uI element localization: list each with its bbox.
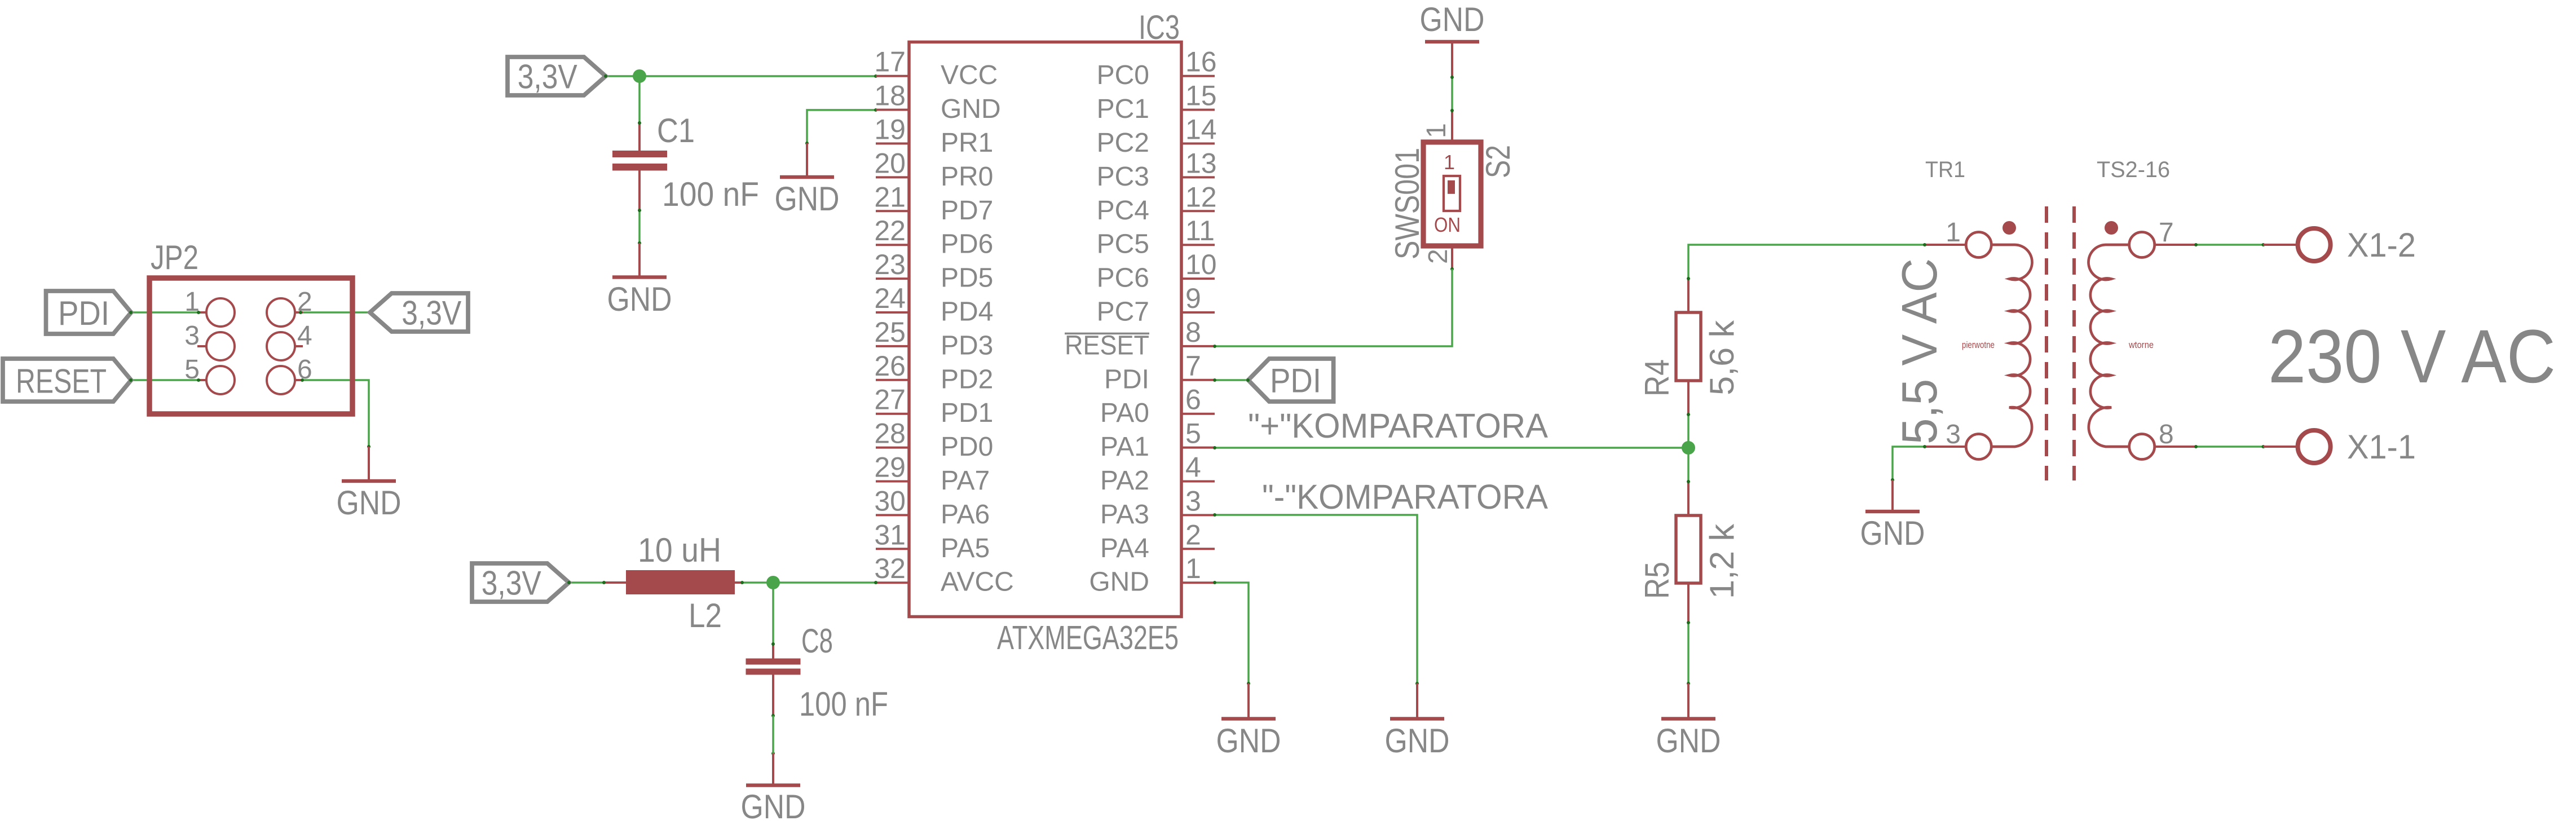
net flag PDI (IC3): [1249, 359, 1334, 402]
svg-text:PDI: PDI: [1270, 362, 1321, 400]
S2 slider: [1444, 176, 1460, 211]
wire IC pin 7 to PDI flag: [1215, 379, 1248, 381]
svg-text:22: 22: [874, 215, 906, 246]
svg-text:100 nF: 100 nF: [799, 685, 888, 723]
IC3 pin 30 (PA6) stub: [876, 514, 909, 516]
ground GND (C1): [638, 243, 641, 277]
IC3 pin 2 (PA4) stub: [1181, 548, 1215, 550]
svg-text:GND: GND: [1089, 567, 1149, 597]
wire junction down to C8: [772, 583, 774, 644]
svg-text:12: 12: [1185, 181, 1217, 213]
svg-text:pierwotne: pierwotne: [1962, 339, 1995, 350]
IC3 pin 17 (VCC) stub: [876, 75, 909, 77]
IC3 pin 4 (PA2) stub: [1181, 480, 1215, 483]
JP2 pin 2: [295, 311, 303, 314]
junction node divider midpoint PA1: [1682, 441, 1695, 455]
wire junction to R5 top: [1687, 448, 1690, 482]
svg-text:10: 10: [1185, 249, 1217, 280]
svg-text:wtorne: wtorne: [2128, 339, 2154, 350]
svg-text:5: 5: [1185, 418, 1201, 449]
JP2 pin 5: [197, 379, 206, 381]
wire R5 bottom to GND: [1687, 623, 1690, 684]
IC3 pin 24 (PD4) stub: [876, 311, 909, 314]
svg-text:GND: GND: [1656, 722, 1721, 760]
IC3 pin 7 (PDI) stub: [1181, 379, 1215, 381]
svg-text:10 uH: 10 uH: [638, 531, 721, 569]
IC3 pin 18 (GND) stub: [876, 109, 909, 111]
wire 3,3V junction down to C1: [638, 76, 641, 123]
IC3 pin 28 (PD0) stub: [876, 447, 909, 449]
svg-text:PD1: PD1: [941, 398, 993, 428]
svg-text:1: 1: [1185, 553, 1201, 584]
svg-text:GND: GND: [1216, 722, 1281, 760]
svg-text:GND: GND: [1385, 722, 1450, 760]
IC3 pin 29 (PA7) stub: [876, 480, 909, 483]
svg-text:ON: ON: [1434, 213, 1461, 236]
svg-text:PDI: PDI: [1104, 364, 1149, 394]
wire C8 to ground: [772, 716, 774, 753]
svg-text:PR1: PR1: [941, 128, 993, 158]
svg-text:230 V AC: 230 V AC: [2268, 315, 2556, 399]
wire net PDI to JP2 pin 1: [131, 311, 199, 314]
IC3 pin 32 (AVCC) stub: [876, 581, 909, 584]
switch S2 (SWS001): [1451, 111, 1453, 142]
svg-text:4: 4: [297, 321, 312, 351]
TR1 primary winding: [1925, 244, 1966, 246]
svg-text:PA1: PA1: [1100, 432, 1149, 462]
svg-text:PC7: PC7: [1097, 297, 1149, 327]
supply flag 3,3V (JP2 pin2): [370, 293, 468, 332]
IC3 pin 14 (PC2) stub: [1181, 143, 1215, 145]
IC3 pin 16 (PC0) stub: [1181, 75, 1215, 77]
wire TR1 pin 8 to X1-1: [2196, 446, 2264, 448]
svg-text:1: 1: [1444, 151, 1455, 174]
wire L2 to IC pin 32 AVCC: [742, 581, 876, 584]
svg-text:PC0: PC0: [1097, 60, 1149, 90]
TR1 core (dashed): [2045, 206, 2048, 480]
IC3 pin 22 (PD6) stub: [876, 244, 909, 246]
capacitor C1: [638, 123, 641, 151]
svg-text:X1-1: X1-1: [2347, 428, 2416, 466]
svg-text:PD2: PD2: [941, 364, 993, 394]
wire GND to S2 pin 1: [1451, 77, 1453, 111]
svg-text:6: 6: [1185, 384, 1201, 416]
svg-text:24: 24: [874, 283, 906, 314]
wire IC pin 18 (GND) to ground: [807, 110, 876, 143]
IC3 pin 20 (PR0) stub: [876, 176, 909, 178]
ground GND (IC pin 1): [1247, 684, 1250, 719]
svg-text:3: 3: [1185, 485, 1201, 517]
svg-text:3,3V: 3,3V: [402, 294, 461, 332]
svg-text:31: 31: [874, 519, 906, 550]
capacitor C8: [772, 644, 774, 659]
supply flag 3,3V (C1): [508, 57, 606, 95]
svg-text:6: 6: [297, 355, 312, 385]
svg-text:PD5: PD5: [941, 263, 993, 293]
svg-text:PC5: PC5: [1097, 230, 1149, 259]
svg-text:PA6: PA6: [941, 500, 990, 530]
wire TR1 pin 3 to GND: [1893, 447, 1925, 480]
svg-text:GND: GND: [1420, 1, 1485, 38]
svg-text:PC2: PC2: [1097, 128, 1149, 158]
svg-text:TS2-16: TS2-16: [2097, 157, 2170, 182]
net flag RESET (JP2): [3, 359, 131, 402]
svg-text:16: 16: [1185, 46, 1217, 78]
svg-text:PD4: PD4: [941, 297, 993, 327]
svg-text:GND: GND: [607, 280, 672, 318]
svg-text:100 nF: 100 nF: [662, 175, 759, 213]
svg-text:13: 13: [1185, 147, 1217, 179]
svg-text:19: 19: [874, 114, 906, 145]
svg-text:RESET: RESET: [16, 363, 107, 400]
svg-text:SWS001: SWS001: [1388, 148, 1426, 259]
IC3 pin 6 (PA0) stub: [1181, 413, 1215, 415]
IC3 pin 9 (PC7) stub: [1181, 311, 1215, 314]
svg-text:17: 17: [874, 46, 906, 78]
JP2 pin 1: [199, 311, 206, 314]
svg-text:28: 28: [874, 418, 906, 449]
svg-text:32: 32: [874, 553, 906, 584]
JP2 pin 4: [295, 345, 303, 347]
svg-text:ATXMEGA32E5: ATXMEGA32E5: [997, 619, 1179, 656]
svg-text:9: 9: [1185, 283, 1201, 314]
IC3 pin 5 (PA1) stub: [1181, 447, 1215, 449]
svg-text:"-"KOMPARATORA: "-"KOMPARATORA: [1262, 478, 1548, 516]
svg-text:C8: C8: [801, 622, 833, 660]
wire S2 pin 2 to IC pin 8 RESET: [1215, 269, 1452, 346]
IC3 pin 1 (GND) stub: [1181, 581, 1215, 584]
svg-text:GND: GND: [941, 94, 1001, 124]
wire JP2 pin 6 to GND: [302, 380, 369, 447]
resistor R4: [1687, 279, 1690, 312]
IC3 pin 12 (PC4) stub: [1181, 210, 1215, 212]
svg-text:1: 1: [1422, 123, 1452, 138]
wire IC pin 5 PA1 to R4/R5 divider: [1215, 447, 1688, 449]
IC3 pin 13 (PC3) stub: [1181, 176, 1215, 178]
supply flag 3,3V (L2): [472, 563, 569, 602]
svg-text:PD7: PD7: [941, 196, 993, 226]
inductor L2: [604, 581, 626, 584]
svg-text:3,3V: 3,3V: [482, 565, 541, 602]
svg-text:11: 11: [1185, 215, 1215, 246]
svg-text:PD0: PD0: [941, 432, 993, 462]
svg-text:GND: GND: [337, 484, 402, 522]
JP2 pin 3: [197, 345, 206, 347]
svg-text:15: 15: [1185, 80, 1217, 112]
JP2 pin 6: [295, 379, 303, 381]
svg-text:GND: GND: [775, 180, 840, 218]
wire C1 bottom to GND: [638, 210, 641, 243]
connector JP2: [149, 278, 352, 414]
svg-text:20: 20: [874, 147, 906, 179]
svg-text:8: 8: [2159, 420, 2174, 449]
svg-text:PC4: PC4: [1097, 196, 1149, 226]
svg-text:AVCC: AVCC: [941, 567, 1014, 597]
svg-text:7: 7: [1185, 350, 1201, 382]
svg-text:4: 4: [1185, 452, 1201, 483]
svg-text:1,2 k: 1,2 k: [1703, 523, 1741, 599]
svg-text:18: 18: [874, 80, 906, 112]
svg-text:PDI: PDI: [58, 294, 109, 332]
ground GND (IC pin 18): [806, 143, 808, 177]
svg-text:S2: S2: [1479, 145, 1517, 178]
net flag PDI (JP2): [46, 291, 131, 334]
wire divider top to TR1 pin 1: [1688, 245, 1925, 279]
connector pin X1-2: [2264, 244, 2298, 246]
svg-text:PR0: PR0: [941, 162, 993, 192]
junction node AVCC/C8: [766, 576, 780, 589]
svg-text:30: 30: [874, 485, 906, 517]
svg-text:3: 3: [1946, 420, 1961, 449]
svg-text:X1-2: X1-2: [2347, 226, 2416, 264]
svg-text:PA3: PA3: [1100, 500, 1149, 530]
IC3 pin 31 (PA5) stub: [876, 548, 909, 550]
ground GND (PA3 net): [1416, 684, 1418, 719]
svg-text:25: 25: [874, 316, 906, 348]
TR1 primary polarity dot: [2002, 221, 2016, 235]
IC3 pin 27 (PD1) stub: [876, 413, 909, 415]
wire net RESET to JP2 pin 5: [131, 379, 199, 381]
svg-text:8: 8: [1185, 316, 1201, 348]
svg-text:3: 3: [184, 321, 200, 351]
svg-text:7: 7: [2159, 218, 2174, 248]
IC3 pin 15 (PC1) stub: [1181, 109, 1215, 111]
svg-text:PD3: PD3: [941, 330, 993, 360]
svg-text:PA5: PA5: [941, 533, 990, 563]
svg-text:14: 14: [1185, 114, 1217, 145]
wire net 3,3V to IC pin 17 (VCC): [606, 75, 876, 77]
svg-text:GND: GND: [1860, 514, 1925, 552]
svg-text:29: 29: [874, 452, 906, 483]
IC3 pin 26 (PD2) stub: [876, 379, 909, 381]
ground GND (TR1): [1891, 480, 1894, 511]
svg-text:PA4: PA4: [1100, 533, 1149, 563]
wire JP2 pin 2 to 3,3V: [301, 311, 370, 314]
IC3 pin 21 (PD7) stub: [876, 210, 909, 212]
svg-text:21: 21: [874, 181, 906, 213]
TR1 secondary polarity dot: [2105, 221, 2118, 235]
svg-text:PD6: PD6: [941, 230, 993, 259]
svg-text:"+"KOMPARATORA: "+"KOMPARATORA: [1248, 407, 1548, 445]
wire 3,3V to L2: [569, 581, 604, 584]
wire IC pin 1 GND to ground: [1215, 583, 1249, 684]
svg-text:R5: R5: [1638, 562, 1676, 599]
connector pin X1-1: [2264, 446, 2298, 448]
svg-text:GND: GND: [741, 788, 806, 826]
svg-text:5,6 k: 5,6 k: [1703, 320, 1741, 395]
svg-text:5,5 V AC: 5,5 V AC: [1891, 258, 1947, 444]
wire TR1 pin 7 to X1-2: [2196, 244, 2264, 246]
wire IC pin 3 PA3 to GND: [1215, 515, 1417, 684]
op IC3 ATXMEGA32E5 box: [909, 42, 1181, 617]
svg-text:1: 1: [1946, 218, 1961, 248]
svg-text:L2: L2: [689, 597, 722, 634]
IC3 pin 11 (PC5) stub: [1181, 244, 1215, 246]
svg-text:2: 2: [1423, 249, 1453, 264]
svg-text:PA2: PA2: [1100, 466, 1149, 496]
svg-text:R4: R4: [1638, 359, 1676, 396]
svg-text:IC3: IC3: [1139, 8, 1180, 46]
resistor R5: [1687, 482, 1690, 515]
svg-text:23: 23: [874, 249, 906, 280]
svg-text:JP2: JP2: [151, 239, 199, 276]
svg-text:VCC: VCC: [941, 60, 998, 90]
svg-text:C1: C1: [657, 112, 695, 149]
IC3 pin 3 (PA3) stub: [1181, 514, 1215, 516]
svg-text:2: 2: [1185, 519, 1201, 550]
IC3 pin 25 (PD3) stub: [876, 345, 909, 347]
IC3 pin 8 (RESET) stub: [1181, 345, 1215, 347]
IC3 pin 19 (PR1) stub: [876, 143, 909, 145]
IC3 pin 10 (PC6) stub: [1181, 277, 1215, 280]
svg-text:TR1: TR1: [1925, 157, 1965, 182]
svg-text:26: 26: [874, 350, 906, 382]
ground GND (R5): [1687, 684, 1690, 719]
svg-text:PA0: PA0: [1100, 398, 1149, 428]
svg-text:PC6: PC6: [1097, 263, 1149, 293]
TR1 secondary winding: [2155, 244, 2196, 246]
svg-text:PC3: PC3: [1097, 162, 1149, 192]
svg-text:27: 27: [874, 384, 906, 416]
svg-text:PA7: PA7: [941, 466, 990, 496]
ground GND (below JP2): [368, 447, 370, 481]
ground GND (C8): [772, 753, 774, 786]
svg-text:PC1: PC1: [1097, 94, 1149, 124]
wire C8 bottom to GND: [772, 753, 774, 774]
wire R4 bottom to junction: [1687, 414, 1690, 448]
svg-text:RESET: RESET: [1065, 330, 1149, 360]
svg-text:3,3V: 3,3V: [518, 58, 577, 96]
junction node 3,3V/C1: [633, 69, 646, 83]
IC3 pin 23 (PD5) stub: [876, 277, 909, 280]
